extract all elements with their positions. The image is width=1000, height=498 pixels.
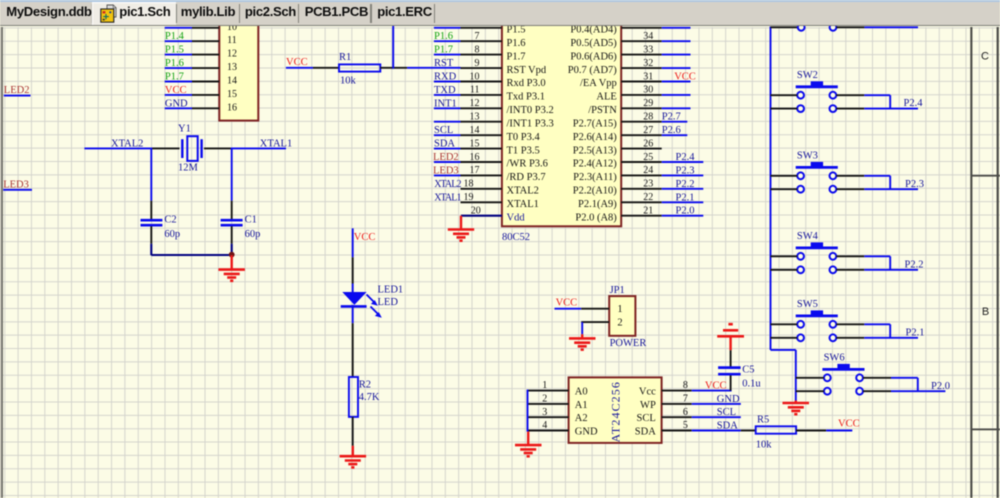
wire net P2.4 xyxy=(864,95,918,108)
svg-text:SW2: SW2 xyxy=(797,70,818,81)
svg-text:LED3: LED3 xyxy=(3,179,29,190)
net label P1.5 xyxy=(165,45,184,56)
svg-text:12: 12 xyxy=(227,49,237,60)
R5 label xyxy=(757,415,769,426)
switch SW2 xyxy=(796,70,838,112)
U1 pin 20 wire (Vdd) xyxy=(461,215,502,217)
wire vertical (top) xyxy=(392,26,394,69)
svg-text:R1: R1 xyxy=(339,52,351,63)
svg-text:24: 24 xyxy=(643,165,653,176)
svg-text:B: B xyxy=(982,306,989,318)
svg-text:/RD P3.7: /RD P3.7 xyxy=(507,172,546,183)
R1 label xyxy=(339,52,351,63)
svg-text:SCL: SCL xyxy=(637,413,656,424)
svg-text:32: 32 xyxy=(643,58,653,69)
wire C2 to gnd xyxy=(151,244,231,256)
svg-text:VCC: VCC xyxy=(165,85,187,96)
svg-text:SW3: SW3 xyxy=(797,151,818,162)
tab icon xyxy=(100,3,120,23)
net label XTAL2 xyxy=(434,179,461,190)
svg-text:P2.2(A10): P2.2(A10) xyxy=(573,186,618,197)
resistor R5 xyxy=(756,426,796,433)
wire LED1-R2 xyxy=(352,323,354,377)
svg-text:GND: GND xyxy=(717,394,740,405)
wire R2-gnd xyxy=(352,417,354,446)
svg-text:/PSTN: /PSTN xyxy=(588,105,617,116)
power label VCC (pin31) xyxy=(674,72,696,83)
SW6 pin wires xyxy=(796,378,891,391)
svg-text:22: 22 xyxy=(643,192,653,203)
power label VCC (U3 pin8) xyxy=(705,380,727,391)
U2 pin wires xyxy=(165,28,192,109)
net label P2.7 xyxy=(662,112,681,123)
svg-text:19: 19 xyxy=(464,192,474,203)
svg-text:P2.6(A14): P2.6(A14) xyxy=(573,132,618,143)
net label GND + wire xyxy=(692,394,741,405)
svg-text:1: 1 xyxy=(542,380,547,391)
svg-text:17: 17 xyxy=(470,165,480,176)
svg-text:LED1: LED1 xyxy=(378,285,404,296)
net label P2.1 xyxy=(906,327,925,338)
wire XTAL2 xyxy=(84,147,151,149)
net label P2.3 xyxy=(905,179,924,190)
svg-text:RST Vpd: RST Vpd xyxy=(507,65,547,76)
svg-text:POWER: POWER xyxy=(610,338,647,349)
svg-text:XTAL2: XTAL2 xyxy=(434,179,461,190)
svg-text:JP1: JP1 xyxy=(610,285,625,296)
svg-text:LED3: LED3 xyxy=(433,165,459,176)
LED1 value LED xyxy=(378,297,399,308)
wire net P2.0 xyxy=(891,378,945,391)
R1 value 10k xyxy=(340,76,357,87)
switch SW6 xyxy=(822,353,864,395)
svg-text:P2.1: P2.1 xyxy=(676,192,695,203)
svg-text:P2.4: P2.4 xyxy=(676,152,696,163)
svg-text:26: 26 xyxy=(643,138,653,149)
svg-text:P2.6: P2.6 xyxy=(662,125,681,136)
svg-text:P1.5: P1.5 xyxy=(165,45,184,56)
svg-text:WP: WP xyxy=(640,400,656,411)
svg-text:VCC: VCC xyxy=(354,232,376,243)
svg-text:P1.7: P1.7 xyxy=(165,72,184,83)
net label P1.6 xyxy=(434,31,453,42)
junction xyxy=(229,252,235,258)
svg-text:ALE: ALE xyxy=(596,92,616,103)
U2 pins (left side) xyxy=(192,28,219,109)
net label P2.1 xyxy=(676,192,695,203)
svg-text:15: 15 xyxy=(227,89,237,100)
svg-text:TXD: TXD xyxy=(434,85,456,96)
wire net P2.1 xyxy=(864,324,918,338)
svg-text:P2.3(A11): P2.3(A11) xyxy=(573,172,617,183)
svg-text:/INT1 P3.3: /INT1 P3.3 xyxy=(507,118,554,129)
svg-text:GND: GND xyxy=(575,427,598,438)
svg-text:P2.0: P2.0 xyxy=(676,206,695,217)
svg-text:VCC: VCC xyxy=(674,72,696,83)
svg-text:13: 13 xyxy=(227,62,237,73)
wire net P2.3 xyxy=(864,176,918,189)
U2 pin numbers 10-16 xyxy=(227,22,237,114)
ground (U3) xyxy=(515,432,542,457)
wire net P2.2 xyxy=(864,256,918,270)
svg-text:P1.6: P1.6 xyxy=(434,31,453,42)
wire SW1 net xyxy=(864,26,918,28)
svg-text:P1.7: P1.7 xyxy=(507,51,526,62)
power label VCC xyxy=(286,57,308,68)
wire to C2 xyxy=(150,148,152,220)
net label GND xyxy=(165,98,188,109)
svg-text:VCC: VCC xyxy=(838,419,860,430)
svg-text:LED2: LED2 xyxy=(433,152,459,163)
ground (switch bus) xyxy=(783,401,810,415)
net label SCL + wire xyxy=(692,407,741,418)
net label P1.7 xyxy=(165,72,184,83)
svg-text:21: 21 xyxy=(643,206,653,217)
svg-text:P0.5(AD5): P0.5(AD5) xyxy=(570,38,617,49)
power label VCC xyxy=(165,85,187,96)
net label XTAL1 xyxy=(260,139,292,150)
crystal value 12M xyxy=(178,163,199,174)
svg-text:2: 2 xyxy=(617,318,622,329)
net label RXD xyxy=(434,72,457,83)
svg-text:Y1: Y1 xyxy=(178,123,191,134)
svg-text:60p: 60p xyxy=(245,229,261,240)
resistor R2 xyxy=(349,377,358,417)
R2 value 4.7K xyxy=(359,392,380,403)
power label VCC (LED) xyxy=(354,232,376,243)
U1 left pin wires xyxy=(434,28,461,176)
net label LED3 xyxy=(433,165,459,176)
LED1 label xyxy=(378,285,404,296)
svg-text:80C52: 80C52 xyxy=(502,232,530,243)
svg-text:P2.3: P2.3 xyxy=(676,165,695,176)
svg-text:8: 8 xyxy=(683,380,688,391)
svg-text:VCC: VCC xyxy=(286,57,308,68)
svg-text:Vcc: Vcc xyxy=(639,387,656,398)
IC U3 AT24C256 body xyxy=(569,377,662,443)
svg-text:SW6: SW6 xyxy=(824,353,845,364)
svg-text:6: 6 xyxy=(683,407,688,418)
svg-text:10: 10 xyxy=(470,71,480,82)
IC U1 body xyxy=(502,16,621,226)
svg-text:P1.7: P1.7 xyxy=(434,45,453,56)
net label SCL xyxy=(434,125,453,136)
svg-text:RST: RST xyxy=(434,58,454,69)
svg-text:P1.4: P1.4 xyxy=(165,31,185,42)
power label VCC (JP1) xyxy=(556,297,578,308)
svg-text:C2: C2 xyxy=(164,214,176,225)
net label P2.0 xyxy=(676,206,695,217)
net label P2.2 xyxy=(676,179,695,190)
net label P2.4 xyxy=(904,98,924,109)
svg-text:P2.0 (A8): P2.0 (A8) xyxy=(575,212,617,223)
net label P2.0 xyxy=(931,381,950,392)
svg-text:P2.2: P2.2 xyxy=(905,259,924,270)
svg-text:Rxd P3.0: Rxd P3.0 xyxy=(507,78,546,89)
capacitor C5 xyxy=(718,368,741,391)
net label LED3 + wire xyxy=(3,179,32,190)
svg-text:RXD: RXD xyxy=(434,72,457,83)
wire VCC-JP1 pin1 xyxy=(555,308,610,310)
svg-text:P0.7 (AD7): P0.7 (AD7) xyxy=(568,65,618,76)
svg-text:7: 7 xyxy=(683,394,688,405)
svg-text:A1: A1 xyxy=(575,400,588,411)
ground (U1 Vdd) xyxy=(448,216,474,241)
wire R1-RST xyxy=(380,67,460,69)
U1 left pin numbers xyxy=(464,31,481,217)
svg-text:20: 20 xyxy=(471,206,481,217)
svg-text:4.7K: 4.7K xyxy=(359,392,380,403)
wire to C1 xyxy=(231,148,233,220)
svg-text:11: 11 xyxy=(470,85,480,96)
svg-text:SW5: SW5 xyxy=(797,299,818,310)
net label P2.4 xyxy=(676,152,696,163)
JP1 label xyxy=(610,285,625,296)
wire U3 pin8 xyxy=(692,390,732,392)
net label LED2 + wire xyxy=(4,85,31,96)
C1 value 60p xyxy=(245,229,261,240)
svg-text:SDA: SDA xyxy=(635,427,656,438)
svg-text:P2.7: P2.7 xyxy=(662,112,681,123)
svg-text:R5: R5 xyxy=(757,415,769,426)
C2 label xyxy=(164,214,176,225)
svg-text:14: 14 xyxy=(470,125,480,136)
wire JP1 pin2-gnd xyxy=(581,322,609,334)
sheet zone letter B xyxy=(982,306,989,318)
C5 value 0.1u xyxy=(742,378,761,389)
R5 value 10k xyxy=(756,439,773,450)
svg-text:SW4: SW4 xyxy=(797,231,819,242)
SW4 pin wires xyxy=(771,256,865,270)
svg-text:C: C xyxy=(981,51,989,63)
connector JP1 xyxy=(609,296,635,336)
wire U3 pins1-4 to gnd xyxy=(527,390,529,432)
svg-text:A2: A2 xyxy=(575,413,588,424)
wire XTAL1 xyxy=(232,147,286,149)
svg-text:30: 30 xyxy=(643,85,653,96)
svg-text:Txd P3.1: Txd P3.1 xyxy=(507,92,546,103)
svg-text:P1.6: P1.6 xyxy=(507,38,526,49)
capacitor C1 xyxy=(221,220,243,244)
switch SW1 (partial) xyxy=(771,24,865,31)
ground (crystal caps) xyxy=(218,255,245,280)
svg-text:16: 16 xyxy=(470,152,480,163)
svg-text:T1 P3.5: T1 P3.5 xyxy=(507,145,540,156)
C2 value 60p xyxy=(164,229,180,240)
net label SDA + wire xyxy=(692,421,741,432)
svg-text:P0.6(AD6): P0.6(AD6) xyxy=(570,51,617,62)
svg-text:16: 16 xyxy=(227,102,237,113)
ground (R2) xyxy=(340,446,367,468)
svg-text:P2.7(A15): P2.7(A15) xyxy=(573,118,618,129)
power ground (C5 top) xyxy=(717,324,744,336)
svg-text:XTAL2: XTAL2 xyxy=(507,186,539,197)
svg-text:Vdd: Vdd xyxy=(507,212,526,223)
LED1 arrows xyxy=(367,295,382,318)
svg-text:0.1u: 0.1u xyxy=(742,378,761,389)
svg-text:P2.4: P2.4 xyxy=(904,98,924,109)
switch SW4 xyxy=(796,231,838,273)
svg-text:T0 P3.4: T0 P3.4 xyxy=(507,132,541,143)
svg-text:33: 33 xyxy=(643,44,653,55)
wire switch bus xyxy=(771,27,796,401)
svg-text:25: 25 xyxy=(643,152,653,163)
svg-text:12: 12 xyxy=(470,98,480,109)
switch SW3 xyxy=(796,151,838,193)
LED1 diode xyxy=(341,292,367,323)
net label RST xyxy=(434,58,454,69)
svg-text:VCC: VCC xyxy=(556,297,578,308)
svg-text:C5: C5 xyxy=(742,365,754,376)
R2 label xyxy=(359,379,371,390)
net label LED2 xyxy=(433,152,459,163)
U1 right pin numbers xyxy=(643,31,653,217)
svg-text:A0: A0 xyxy=(575,387,588,398)
wire SDA-R5 xyxy=(741,430,756,432)
svg-text:27: 27 xyxy=(643,125,653,136)
U3 pin names (right) xyxy=(635,387,656,438)
C5 label xyxy=(742,365,754,376)
svg-text:GND: GND xyxy=(165,98,188,109)
resistor R1 xyxy=(339,64,380,71)
svg-text:P2.2: P2.2 xyxy=(676,179,695,190)
wire VCC-R1 xyxy=(286,67,339,69)
svg-text:1: 1 xyxy=(617,304,622,315)
SW2 pin wires xyxy=(771,95,865,108)
net label P2.2 xyxy=(905,259,924,270)
svg-text:LED2: LED2 xyxy=(4,85,30,96)
wire R5-VCC xyxy=(796,430,852,432)
svg-text:2: 2 xyxy=(542,394,547,405)
net label XTAL1 xyxy=(434,192,461,203)
net label TXD xyxy=(434,85,456,96)
SW5 pin wires xyxy=(771,324,865,338)
svg-text:SDA: SDA xyxy=(434,139,455,150)
U3 right pin numbers xyxy=(683,380,688,431)
net label XTAL2 xyxy=(111,139,143,150)
svg-text:60p: 60p xyxy=(164,229,180,240)
SW3 pin wires xyxy=(771,176,865,189)
net label P2.3 xyxy=(676,165,695,176)
net label SDA xyxy=(434,139,455,150)
svg-text:10k: 10k xyxy=(340,76,357,87)
svg-text:29: 29 xyxy=(643,98,653,109)
power label VCC (R5) xyxy=(838,419,860,430)
C1 label xyxy=(245,214,257,225)
U1 left pins 6-19 xyxy=(461,28,502,203)
U3 pin names (left) xyxy=(575,387,598,438)
wire gnd-C5 xyxy=(729,336,731,366)
IC U2 partial body xyxy=(219,18,258,121)
svg-text:SCL: SCL xyxy=(434,125,453,136)
svg-text:10k: 10k xyxy=(756,439,773,450)
svg-text:3: 3 xyxy=(542,407,547,418)
net label P1.4 xyxy=(165,31,185,42)
net label P1.7 xyxy=(434,45,453,56)
active tab pic1.Sch xyxy=(92,2,176,26)
svg-text:/INT0 P3.2: /INT0 P3.2 xyxy=(507,105,554,116)
U3 right pins 8-5 xyxy=(662,391,692,431)
svg-text:4: 4 xyxy=(542,420,547,431)
JP1 value POWER xyxy=(610,338,647,349)
net label INT1 xyxy=(434,98,457,109)
svg-text:23: 23 xyxy=(643,179,653,190)
U1 label 80C52 xyxy=(502,232,530,243)
U1 right pin wires xyxy=(662,28,704,216)
sheet zone letter C xyxy=(981,51,989,63)
svg-text:14: 14 xyxy=(227,76,237,87)
svg-text:7: 7 xyxy=(475,31,480,42)
svg-text:15: 15 xyxy=(470,138,480,149)
U1 pin names (right) xyxy=(568,25,618,224)
svg-text:XTAL1: XTAL1 xyxy=(434,192,461,203)
crystal Y1 label xyxy=(178,123,191,134)
U3 left pins 1-4 xyxy=(528,391,569,431)
svg-text:XTAL1: XTAL1 xyxy=(507,199,539,210)
U3 left pin numbers xyxy=(542,380,547,431)
svg-text:P1.6: P1.6 xyxy=(165,58,184,69)
wire VCC-LED1 xyxy=(352,228,354,292)
svg-text:28: 28 xyxy=(643,112,653,123)
svg-text:C1: C1 xyxy=(245,214,257,225)
ground (JP1) xyxy=(569,334,596,349)
svg-text:SDA: SDA xyxy=(717,421,738,432)
net label P1.6 xyxy=(165,58,184,69)
svg-text:/EA Vpp: /EA Vpp xyxy=(580,78,617,89)
svg-text:5: 5 xyxy=(683,420,688,431)
crystal Y1 xyxy=(151,136,232,161)
U3 vertical name AT24C256 xyxy=(609,381,623,442)
svg-text:AT24C256: AT24C256 xyxy=(609,381,623,442)
svg-text:12M: 12M xyxy=(178,163,199,174)
svg-text:P2.5(A13): P2.5(A13) xyxy=(573,145,618,156)
svg-text:P2.1: P2.1 xyxy=(906,327,925,338)
svg-text:13: 13 xyxy=(470,112,480,123)
switch SW5 xyxy=(796,299,838,341)
svg-text:P2.0: P2.0 xyxy=(931,381,950,392)
svg-text:18: 18 xyxy=(464,179,474,190)
U1 pin names (left) xyxy=(507,25,554,224)
svg-text:9: 9 xyxy=(475,58,480,69)
svg-text:8: 8 xyxy=(475,44,480,55)
svg-text:31: 31 xyxy=(643,71,653,82)
U1 right pins 21-35 xyxy=(621,28,662,216)
svg-text:R2: R2 xyxy=(359,379,371,390)
svg-text:11: 11 xyxy=(227,35,237,46)
capacitor C2 xyxy=(141,220,163,244)
svg-text:INT1: INT1 xyxy=(434,98,457,109)
net label P2.6 xyxy=(662,125,681,136)
svg-text:LED: LED xyxy=(378,297,399,308)
svg-text:34: 34 xyxy=(643,31,653,42)
svg-text:SCL: SCL xyxy=(717,407,736,418)
svg-text:P2.4(A12): P2.4(A12) xyxy=(573,159,618,170)
svg-text:P2.3: P2.3 xyxy=(905,179,924,190)
svg-text:/WR P3.6: /WR P3.6 xyxy=(507,159,548,170)
svg-text:P2.1(A9): P2.1(A9) xyxy=(578,199,617,210)
